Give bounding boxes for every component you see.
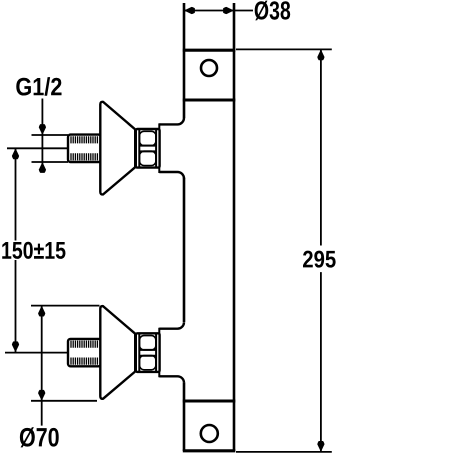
295 dimension line: [320, 49, 322, 452]
dia70 label: [20, 427, 59, 447]
dia38 right arrow: [223, 7, 234, 14]
G1/2 down arrow: [39, 124, 46, 135]
bottom mounting block top line: [183, 400, 236, 403]
295 top arrow: [317, 49, 324, 60]
dia38 dimension line: [184, 10, 253, 12]
dia70 up arrow: [38, 306, 45, 317]
upper hex nut: [136, 129, 160, 168]
G1/2 up arrow: [39, 162, 46, 173]
G1/2 leader line: [41, 99, 43, 173]
bottom mounting hole: [201, 425, 218, 442]
lower fitting centre line: [5, 352, 68, 354]
dia70 bottom extension line: [31, 400, 97, 402]
295 bottom extension line: [236, 451, 332, 453]
body left edge (with top extension for dia38): [183, 3, 186, 451]
G1/2 upper extension line: [32, 134, 69, 136]
dia38 label: [255, 1, 290, 21]
body right edge (with top extension for dia38): [233, 3, 236, 451]
G1/2 lower extension line: [32, 161, 69, 163]
upper fitting centre line: [7, 147, 68, 149]
295 top extension line: [236, 48, 332, 50]
295 label: [303, 251, 336, 268]
top mounting block top line: [183, 49, 236, 52]
295 bottom arrow: [317, 441, 324, 452]
dia38 left arrow: [184, 7, 195, 14]
150±15 top arrow: [12, 148, 19, 159]
upper inlet pipe G1/2 thread: [68, 135, 101, 162]
top mounting hole: [201, 60, 217, 76]
upper wall boss (body step): [159, 118, 184, 179]
lower inlet pipe: [68, 339, 101, 366]
body bottom edge: [183, 449, 236, 452]
top mounting block bottom line: [183, 99, 236, 102]
upper escutcheon cone: [100, 102, 135, 195]
150±15 dimension line: [15, 148, 17, 352]
G1/2 label: [16, 77, 61, 96]
150±15 bottom arrow: [12, 341, 19, 352]
dia70 top extension line: [31, 305, 100, 307]
lower wall boss (body step): [159, 322, 184, 383]
lower hex nut: [136, 333, 160, 372]
150±15 label: [2, 242, 65, 259]
lower escutcheon cone: [100, 306, 135, 399]
dia70 dimension line: [41, 306, 43, 426]
dia70 down arrow: [38, 390, 45, 401]
